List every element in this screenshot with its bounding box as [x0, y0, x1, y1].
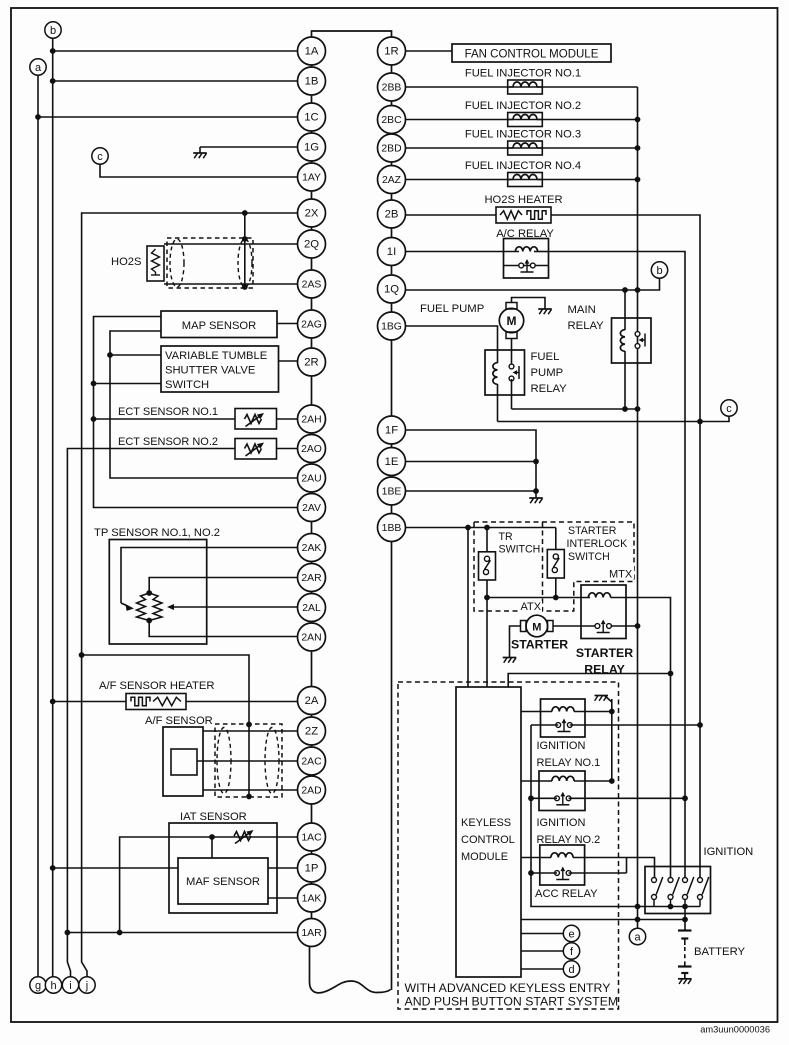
junction 1BE — [533, 488, 539, 494]
junction interlock lower — [553, 595, 559, 601]
fuel pump relay contact — [509, 364, 519, 409]
svg-text:1P: 1P — [305, 863, 319, 875]
wire ign feed riser — [531, 725, 638, 907]
label ATX — [518, 601, 542, 614]
label ECT SENSOR NO.1 — [118, 406, 218, 418]
label STARTER RELAY — [576, 646, 633, 677]
wire interlock bottom leg — [555, 578, 557, 598]
junction IAT stub — [209, 834, 215, 840]
svg-text:SWITCH: SWITCH — [499, 544, 541, 556]
main relay box — [612, 318, 652, 363]
wire VTSV to 2R — [279, 360, 298, 362]
label TR SWITCH — [499, 531, 541, 556]
HO2S sensor body — [147, 246, 164, 281]
svg-text:FUEL: FUEL — [531, 351, 560, 363]
svg-text:BATTERY: BATTERY — [694, 946, 746, 958]
wire relay2 coil right — [574, 780, 612, 782]
wire starter relay coil right to pole2 — [611, 598, 671, 878]
svg-text:2AG: 2AG — [301, 320, 322, 331]
relay1 contact — [556, 719, 572, 732]
wire battery leg — [684, 907, 686, 931]
junction on b at 1B — [50, 78, 56, 84]
ignition switch box — [645, 867, 711, 914]
junction IG line pole4 — [697, 419, 703, 425]
wire keyless to relay2 coil — [521, 780, 552, 782]
pin 1AC — [298, 823, 326, 851]
junction h A/F heater — [50, 699, 56, 705]
junction A/F shield bottom — [246, 794, 252, 800]
wire 1AY to c — [100, 164, 298, 177]
junction 1BB TR — [484, 525, 490, 531]
wire 1BG to FP relay coil — [406, 326, 498, 363]
pin 2A — [298, 687, 326, 715]
label MAF SENSOR — [186, 876, 260, 888]
wire a-line — [521, 919, 685, 921]
wire starter motor ground — [510, 626, 521, 652]
junction relay2 contact to switch riser — [528, 795, 534, 801]
junction on a at 1C — [35, 114, 41, 120]
svg-text:2BB: 2BB — [382, 83, 402, 94]
label AND PUSH BUTTON START SYSTEM — [405, 995, 619, 1009]
wire 2AN to TP bottom — [149, 621, 297, 637]
svg-text:1A: 1A — [305, 46, 319, 58]
svg-text:INTERLOCK: INTERLOCK — [567, 538, 628, 550]
pin 2AS — [298, 270, 326, 298]
svg-text:2AO: 2AO — [301, 444, 322, 455]
svg-text:IAT SENSOR: IAT SENSOR — [180, 811, 247, 823]
pin 2BD — [378, 134, 406, 162]
pin 2BB — [378, 73, 406, 101]
A/F sensor heater box — [126, 694, 186, 710]
svg-text:1Q: 1Q — [384, 284, 399, 296]
svg-text:FAN CONTROL MODULE: FAN CONTROL MODULE — [465, 49, 599, 61]
svg-text:MTX: MTX — [609, 569, 633, 581]
wire 2Q to HO2S — [164, 243, 298, 245]
wire VTSV top to L2 — [110, 354, 161, 356]
svg-text:i: i — [69, 980, 71, 992]
svg-text:RELAY: RELAY — [584, 663, 625, 677]
ignition relay no.1 coil — [552, 707, 574, 712]
svg-text:a: a — [35, 62, 42, 74]
ground at 1G — [193, 147, 207, 158]
label FUEL PUMP RELAY — [531, 351, 568, 395]
wire MAP L2 to 2AU — [110, 331, 298, 478]
ECT sensor no.2 box — [235, 439, 277, 460]
label IAT SENSOR — [180, 811, 247, 823]
svg-text:M: M — [532, 622, 541, 634]
node j — [79, 977, 95, 993]
label MAIN RELAY — [568, 304, 605, 332]
svg-text:2X: 2X — [305, 208, 319, 220]
svg-text:1AK: 1AK — [302, 894, 322, 905]
svg-text:IGNITION: IGNITION — [704, 846, 754, 858]
wire HO2S shield vertical — [244, 213, 246, 287]
svg-text:2AU: 2AU — [301, 474, 321, 485]
label FUEL INJECTOR NO.3 — [465, 129, 581, 141]
svg-text:1BG: 1BG — [381, 322, 402, 333]
pin 1I — [378, 238, 406, 266]
wire TR bottom leg — [486, 580, 488, 687]
starter motor M — [521, 615, 554, 637]
svg-text:1I: 1I — [387, 246, 396, 258]
junction B+ inj2 — [635, 117, 641, 123]
svg-text:ACC RELAY: ACC RELAY — [535, 888, 598, 900]
A/F shield cylinder dashed — [215, 724, 282, 797]
node f — [563, 943, 579, 959]
svg-text:2AK: 2AK — [302, 543, 322, 554]
ground battery — [678, 973, 692, 984]
junction pole3 line — [682, 795, 688, 801]
ignition relay no.2 coil — [552, 776, 574, 781]
pin 2AK — [298, 534, 326, 562]
A/C relay coil — [515, 247, 537, 252]
fuel pump motor M — [499, 303, 523, 339]
junction pole2 keyless line — [668, 671, 674, 677]
ECT sensor no.1 box — [235, 409, 277, 430]
ACC relay coil — [551, 853, 573, 858]
label IGNITION RELAY NO.2 — [537, 817, 601, 846]
wire ECM connector spine left — [311, 37, 313, 947]
label FAN CONTROL MODULE — [465, 49, 599, 61]
wire keyless to ACC coil — [521, 857, 551, 859]
TR switch — [479, 552, 496, 580]
label SHUTTER VALVE — [165, 365, 255, 377]
pin 2Q — [298, 230, 326, 258]
starter relay contact — [581, 620, 638, 633]
svg-text:FUEL INJECTOR NO.1: FUEL INJECTOR NO.1 — [465, 68, 581, 80]
wire net b/h vertical — [52, 38, 54, 977]
svg-text:1B: 1B — [305, 76, 319, 88]
HO2S shield cylinder dashed — [167, 238, 253, 288]
injector NO.1 — [508, 80, 543, 94]
svg-text:VARIABLE TUMBLE: VARIABLE TUMBLE — [165, 350, 267, 362]
pin 1B — [298, 67, 326, 95]
svg-text:am3uun0000036: am3uun0000036 — [700, 1025, 770, 1035]
wire 2AL arrow — [167, 604, 298, 610]
pin 1R — [378, 37, 406, 65]
thermistor ECT1 — [245, 413, 265, 427]
svg-text:CONTROL: CONTROL — [461, 834, 515, 846]
junction bus B+ — [635, 904, 641, 910]
A/C relay contact — [504, 259, 549, 272]
IAT sensor outer box — [169, 823, 277, 913]
svg-text:1AC: 1AC — [301, 833, 322, 844]
node d — [563, 961, 579, 977]
label MAP SENSOR — [182, 320, 256, 332]
wire keyless to pole2 line — [508, 674, 670, 688]
ground relay bus — [595, 696, 612, 703]
fan control module box — [452, 44, 611, 62]
junction j A/F branch — [79, 652, 85, 658]
wire ignition bottom bus — [638, 906, 701, 908]
ACC relay contact — [555, 867, 571, 880]
pin 2AO — [298, 435, 326, 463]
svg-text:2AD: 2AD — [301, 786, 321, 797]
junction bus pole2 — [668, 904, 674, 910]
pin 1BG — [378, 312, 406, 340]
fuel pump relay box — [485, 350, 525, 395]
junction TP top node — [146, 590, 152, 596]
A/C relay box — [504, 239, 549, 279]
pin 2AU — [298, 464, 326, 492]
wire 1BB — [406, 527, 556, 529]
label IGNITION — [704, 846, 754, 858]
wire B+ vertical bus — [637, 87, 639, 920]
junction 1AR i-line — [65, 930, 71, 936]
svg-text:ECT SENSOR NO.2: ECT SENSOR NO.2 — [118, 436, 218, 448]
wire injector row y=87 — [406, 86, 638, 88]
pin 2B — [378, 200, 406, 228]
label HO2S — [111, 256, 141, 268]
wire starter motor right — [553, 625, 581, 627]
svg-text:FUEL INJECTOR NO.4: FUEL INJECTOR NO.4 — [465, 160, 581, 172]
wire VTSV bottom to L1 — [94, 383, 162, 385]
pin 2BC — [378, 106, 406, 134]
injector NO.4 — [508, 173, 543, 187]
svg-text:2Q: 2Q — [304, 239, 319, 251]
svg-text:KEYLESS: KEYLESS — [461, 817, 511, 829]
svg-text:TP SENSOR NO.1, NO.2: TP SENSOR NO.1, NO.2 — [94, 527, 220, 539]
label SWITCH — [165, 379, 209, 391]
label TP SENSOR NO.1, NO.2 — [94, 527, 220, 539]
HO2S heater elements — [500, 211, 546, 219]
wire relay gnd bus — [611, 699, 613, 782]
wire 1R to fan module — [406, 50, 453, 52]
svg-text:d: d — [568, 964, 574, 976]
svg-text:WITH ADVANCED KEYLESS ENTRY: WITH ADVANCED KEYLESS ENTRY — [405, 981, 611, 995]
wire interlock top leg — [555, 528, 557, 550]
junction 1E — [533, 459, 539, 465]
svg-text:SHUTTER VALVE: SHUTTER VALVE — [165, 365, 255, 377]
label FUEL INJECTOR NO.1 — [465, 68, 581, 80]
svg-text:2AR: 2AR — [301, 573, 322, 584]
svg-text:M: M — [507, 314, 517, 328]
pin 2X — [298, 199, 326, 227]
wire 2AS to HO2S — [164, 283, 298, 285]
svg-text:MAP SENSOR: MAP SENSOR — [182, 320, 256, 332]
svg-text:RELAY: RELAY — [568, 320, 605, 332]
svg-text:e: e — [568, 928, 574, 940]
junction B+ inj3 — [635, 145, 641, 151]
label BATTERY — [694, 946, 746, 958]
svg-text:HO2S HEATER: HO2S HEATER — [484, 194, 562, 206]
junction 2X shield — [242, 210, 248, 216]
ACC relay box — [540, 845, 585, 885]
svg-text:c: c — [726, 403, 732, 415]
label ACC RELAY — [535, 888, 598, 900]
svg-text:A/F SENSOR: A/F SENSOR — [145, 715, 213, 727]
junction TP bottom node — [146, 618, 152, 624]
pin 2AH — [298, 405, 326, 433]
pin 1Q — [378, 275, 406, 303]
svg-text:2BC: 2BC — [381, 115, 402, 126]
svg-text:2AN: 2AN — [301, 633, 321, 644]
pin 1F — [378, 416, 406, 444]
junction 1Q main relay coil — [622, 287, 628, 293]
svg-text:1R: 1R — [384, 46, 398, 58]
label HO2S HEATER — [484, 194, 562, 206]
pin 2AR — [298, 564, 326, 592]
wire injector row y=179.5 — [406, 179, 638, 181]
wire ECT2 to 2AO — [277, 448, 298, 450]
starter relay box — [581, 585, 626, 639]
ground fuel pump — [538, 303, 552, 314]
node b right — [651, 262, 667, 278]
pin 1C — [298, 103, 326, 131]
pin 1A — [298, 37, 326, 65]
label FUEL PUMP — [420, 303, 484, 315]
svg-text:1BB: 1BB — [382, 523, 402, 534]
label STARTER INTERLOCK SWITCH — [567, 525, 628, 563]
junction A/F shield top — [246, 722, 252, 728]
label KEYLESS CONTROL MODULE — [461, 817, 515, 863]
ground 1F/1E/1BE — [529, 492, 543, 503]
junction TR lower — [484, 595, 490, 601]
junction relay1 contact pole4 — [697, 722, 703, 728]
svg-text:2B: 2B — [385, 209, 399, 221]
wire injector row y=148 — [406, 147, 638, 149]
junction relay2 coil gnd bus — [609, 778, 615, 784]
wire IG line to c — [498, 416, 730, 422]
junction L1 ECT1 — [91, 416, 97, 422]
svg-text:2BD: 2BD — [381, 144, 401, 155]
junction 1Q B+ — [635, 287, 641, 293]
label FUEL INJECTOR NO.2 — [465, 100, 581, 112]
junction B+ inj4 — [635, 177, 641, 183]
wire 1P to MAF — [268, 867, 298, 869]
wire keyless riser 1 — [467, 528, 469, 688]
wire main relay coil leg — [624, 290, 626, 409]
junction L1 VTSV — [91, 381, 97, 387]
wire connector top bracket 1A-1R — [312, 31, 392, 39]
wire ACC contact line — [531, 858, 627, 874]
wire ECT1 left to L1 — [94, 418, 236, 420]
svg-text:2AH: 2AH — [301, 415, 321, 426]
wire 1C to a — [38, 116, 298, 118]
svg-text:1E: 1E — [385, 456, 399, 468]
thermistor IAT — [234, 830, 254, 844]
svg-text:AND PUSH BUTTON START SYSTEM: AND PUSH BUTTON START SYSTEM — [405, 995, 619, 1009]
svg-text:2R: 2R — [304, 357, 318, 369]
node b left — [45, 22, 61, 38]
keyless dashed box — [398, 682, 619, 1009]
MAF sensor box — [178, 858, 268, 904]
wire 1A to b — [53, 50, 298, 52]
svg-text:A/F SENSOR HEATER: A/F SENSOR HEATER — [99, 680, 214, 692]
wire to f — [521, 950, 563, 952]
node g — [30, 977, 46, 993]
wire 2AR to TP top — [149, 578, 297, 594]
svg-text:FUEL INJECTOR NO.2: FUEL INJECTOR NO.2 — [465, 100, 581, 112]
junction main relay coil out — [622, 406, 628, 412]
svg-text:2AL: 2AL — [302, 603, 321, 614]
svg-text:FUEL PUMP: FUEL PUMP — [420, 303, 484, 315]
pin 2AV — [298, 494, 326, 522]
wire motor to FP relay contact — [511, 339, 513, 367]
ignition relay no.2 box — [539, 771, 585, 811]
svg-text:2AC: 2AC — [301, 757, 322, 768]
svg-text:STARTER: STARTER — [511, 638, 568, 652]
svg-text:b: b — [50, 25, 56, 37]
pin 2Z — [298, 717, 326, 745]
wire to d — [521, 968, 563, 970]
wire 1B to b — [53, 80, 298, 82]
wire ACC coil right to pole1 — [573, 858, 655, 878]
junction 1BB keyless riser — [465, 525, 471, 531]
junction on b at 1A — [50, 48, 56, 54]
svg-text:STARTER: STARTER — [576, 646, 633, 660]
svg-text:STARTER: STARTER — [568, 525, 617, 537]
svg-text:h: h — [50, 980, 56, 992]
svg-text:PUMP: PUMP — [531, 367, 564, 379]
junction 1AR 1AC-line — [117, 930, 123, 936]
svg-text:RELAY: RELAY — [531, 383, 568, 395]
wire 2AK wiper — [121, 548, 298, 611]
wire A/F shield branch — [82, 655, 249, 797]
wire 2Z to A/F — [203, 730, 298, 732]
wire MAP to 2AG — [277, 323, 298, 325]
wire 2AC to A/F — [197, 760, 298, 762]
svg-text:1AR: 1AR — [301, 928, 322, 939]
node e — [563, 925, 579, 941]
junction L2 VTSV — [107, 352, 113, 358]
svg-text:2A: 2A — [305, 695, 319, 707]
node a right — [629, 928, 645, 944]
label A/F SENSOR — [145, 715, 213, 727]
junction h MAF — [50, 865, 56, 871]
pin 1AR — [298, 919, 326, 947]
thermistor ECT2 — [245, 443, 265, 457]
main relay coil — [620, 330, 625, 352]
wire 1G stub — [200, 146, 298, 148]
TP potentiometer — [137, 593, 163, 621]
main relay contact — [635, 332, 645, 349]
fuel pump relay coil — [493, 363, 498, 422]
label A/C RELAY — [496, 228, 554, 240]
wire MAP L1 to 2AV — [94, 317, 298, 508]
pin 2R — [298, 348, 326, 376]
A/F heater elements — [131, 697, 181, 705]
wire relay2 contact line — [531, 797, 686, 799]
pin 2AZ — [378, 166, 406, 194]
pin 1BB — [378, 514, 406, 542]
svg-text:1F: 1F — [385, 425, 398, 437]
wire injector row y=119.5 — [406, 119, 638, 121]
junction a-line B+ — [635, 917, 641, 923]
wire A/C relay to pole3 vertical — [549, 252, 686, 878]
junction shield top — [242, 236, 248, 242]
pin 1BE — [378, 477, 406, 505]
wire 1I to A/C relay — [406, 251, 549, 253]
wire 2AD to A/F — [203, 789, 298, 791]
wire IAT stub to MAF — [211, 837, 213, 858]
relay2 contact — [555, 792, 571, 805]
wire 1AR — [67, 932, 297, 934]
starter interlock switch — [547, 550, 564, 579]
node c left — [92, 148, 108, 164]
label IGNITION RELAY NO.1 — [537, 740, 601, 769]
wire ECT1 to 2AH — [277, 418, 298, 420]
A/F sensor inner box — [171, 749, 197, 775]
wire heater to pole4 vertical — [551, 215, 700, 877]
wire FP output line — [512, 408, 638, 410]
junction B+ starter relay — [635, 623, 641, 629]
node i — [62, 977, 78, 993]
wire 1BE — [406, 490, 537, 492]
wire ECM connector spine right — [391, 38, 393, 991]
wire 1Q — [406, 289, 638, 291]
svg-text:b: b — [656, 265, 662, 277]
